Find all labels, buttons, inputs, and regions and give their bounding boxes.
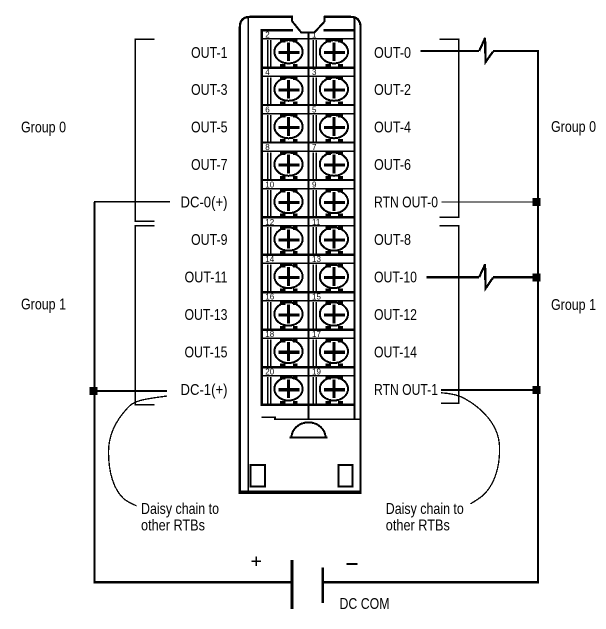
RTB bottom edge (239, 491, 361, 494)
svg-text:OUT-3: OUT-3 (191, 82, 228, 99)
group 0 bracket right (440, 39, 460, 217)
junction dot RTN OUT-0 (533, 198, 541, 206)
svg-text:OUT-14: OUT-14 (374, 344, 417, 361)
terminal row 1 (terminals 2,1) (261, 30, 356, 67)
wire OUT-0 left segment (421, 50, 480, 52)
mounting foot right (338, 465, 352, 486)
keying notch outline (292, 16, 325, 33)
svg-text:RTN OUT-0: RTN OUT-0 (374, 195, 438, 212)
svg-text:OUT-10: OUT-10 (374, 270, 417, 287)
RTB body outline (240, 17, 361, 493)
terminal strip center divider (308, 34, 310, 420)
keying notch white-out (293, 15, 323, 32)
svg-text:OUT-4: OUT-4 (374, 120, 411, 137)
terminal row 5 (terminals 10,9) (261, 180, 356, 217)
battery negative plate (321, 567, 324, 603)
svg-text:Daisy chain to: Daisy chain to (141, 501, 219, 518)
terminal row 9 (terminals 18,17) (261, 330, 356, 367)
terminal row 2 (terminals 4,3) (261, 68, 356, 105)
svg-text:other RTBs: other RTBs (141, 517, 205, 534)
battery positive plate (291, 560, 294, 609)
svg-text:OUT-6: OUT-6 (374, 157, 411, 174)
svg-text:Group 0: Group 0 (21, 120, 66, 137)
load squiggle on OUT-10 (479, 264, 493, 288)
svg-text:DC COM: DC COM (340, 596, 390, 613)
wire bottom left (94, 581, 292, 583)
svg-text:RTN OUT-1: RTN OUT-1 (374, 382, 438, 399)
wire RTN OUT-1 (441, 389, 538, 391)
svg-text:OUT-12: OUT-12 (374, 307, 417, 324)
RTB inner right wall (353, 18, 355, 420)
terminal strip left edge (261, 29, 263, 406)
svg-text:DC-0(+): DC-0(+) (181, 195, 228, 212)
wire left vertical (94, 202, 96, 582)
junction dot DC-1 (90, 387, 98, 395)
terminal row 8 (terminals 16,15) (261, 292, 356, 329)
label minus (347, 563, 358, 565)
wire bottom right (323, 581, 540, 583)
daisy chain arc left (109, 396, 168, 506)
junction dot OUT-10 (533, 273, 541, 281)
load squiggle on OUT-0 (479, 38, 493, 62)
svg-text:OUT-8: OUT-8 (374, 232, 411, 249)
strain relief dome (289, 422, 327, 437)
svg-text:OUT-13: OUT-13 (185, 307, 228, 324)
svg-text:OUT-9: OUT-9 (191, 232, 228, 249)
terminal strip bottom bar (261, 403, 356, 406)
svg-text:other RTBs: other RTBs (386, 517, 450, 534)
svg-text:Group 1: Group 1 (21, 296, 66, 313)
svg-text:DC-1(+): DC-1(+) (181, 382, 228, 399)
svg-text:OUT-5: OUT-5 (191, 120, 228, 137)
wire DC-1 stub (93, 390, 167, 392)
wire RTN OUT-0 (442, 201, 535, 203)
mounting foot left (251, 465, 265, 486)
wire right vertical (537, 51, 539, 582)
wire OUT-10 right segment (493, 276, 538, 278)
RTB inner left wall (247, 18, 249, 491)
terminal row 10 (terminals 20,19) (261, 367, 356, 404)
svg-text:OUT-15: OUT-15 (185, 344, 228, 361)
junction dot RTN OUT-1 (533, 386, 541, 394)
terminal row 3 (terminals 6,5) (261, 105, 356, 142)
label plus (252, 557, 262, 567)
wire OUT-0 right segment (493, 50, 539, 52)
wire DC-0 stub (94, 201, 170, 203)
terminal row 7 (terminals 14,13) (261, 255, 356, 292)
terminal row 4 (terminals 8,7) (261, 143, 356, 180)
terminal row 6 (terminals 12,11) (261, 217, 356, 254)
daisy chain arc right (441, 393, 500, 504)
svg-text:OUT-1: OUT-1 (191, 45, 228, 62)
svg-text:OUT-2: OUT-2 (374, 82, 411, 99)
svg-text:OUT-11: OUT-11 (185, 270, 228, 287)
svg-text:Group 1: Group 1 (551, 297, 596, 314)
svg-text:OUT-7: OUT-7 (191, 157, 228, 174)
wire OUT-10 left segment (427, 276, 480, 278)
svg-text:OUT-0: OUT-0 (374, 45, 411, 62)
group 1 bracket left (134, 226, 154, 405)
group 1 bracket right (440, 226, 460, 404)
svg-text:Daisy chain to: Daisy chain to (386, 501, 464, 518)
group 0 bracket left (134, 39, 154, 221)
RTB bottom tray line (262, 417, 360, 419)
svg-text:Group 0: Group 0 (551, 119, 596, 136)
